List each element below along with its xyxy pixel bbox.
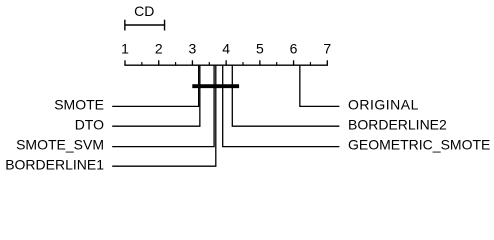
BORDERLINE2 connector	[232, 65, 339, 126]
GEOMETRIC_SMOTE connector	[223, 65, 340, 147]
svg-text:3: 3	[189, 41, 197, 57]
svg-text:ORIGINAL: ORIGINAL	[348, 97, 419, 113]
ORIGINAL connector	[300, 65, 340, 107]
svg-text:BORDERLINE2: BORDERLINE2	[348, 116, 447, 132]
svg-text:BORDERLINE1: BORDERLINE1	[5, 156, 104, 172]
DTO connector	[112, 65, 200, 126]
axis line	[124, 64, 328, 66]
svg-text:CD: CD	[134, 3, 154, 19]
svg-text:DTO: DTO	[75, 116, 104, 132]
svg-text:7: 7	[323, 41, 331, 57]
CD ruler line	[125, 24, 165, 26]
svg-text:5: 5	[256, 41, 264, 57]
CD ruler right cap	[164, 20, 166, 31]
svg-text:2: 2	[155, 41, 163, 57]
right labels	[348, 97, 490, 153]
svg-text:1: 1	[121, 41, 129, 57]
BORDERLINE1 connector	[112, 65, 216, 166]
left labels	[5, 97, 104, 173]
SMOTE_SVM connector	[112, 65, 214, 147]
svg-text:4: 4	[222, 41, 230, 57]
axis numbers	[121, 41, 331, 57]
svg-text:6: 6	[290, 41, 298, 57]
minor ticks	[142, 62, 311, 65]
clique crossbar	[192, 84, 239, 88]
svg-text:SMOTE_SVM: SMOTE_SVM	[16, 137, 104, 153]
SMOTE connector	[112, 65, 198, 107]
svg-text:GEOMETRIC_SMOTE: GEOMETRIC_SMOTE	[348, 137, 490, 153]
svg-text:SMOTE: SMOTE	[54, 97, 104, 113]
major ticks	[125, 60, 327, 65]
CD ruler left cap	[124, 20, 126, 31]
